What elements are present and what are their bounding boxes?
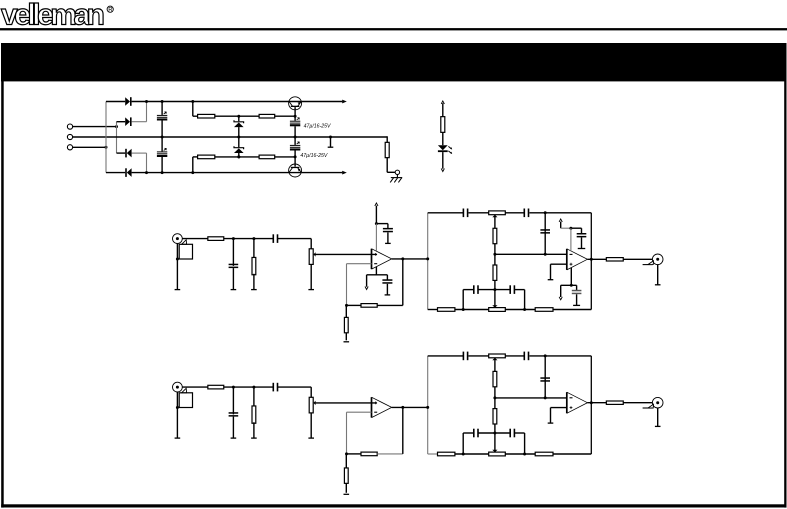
- op-amp U1a: [371, 249, 373, 269]
- wire center rail to R5: [386, 136, 388, 142]
- op-amp U2b: [566, 392, 568, 413]
- ground volume pot ch2: [308, 437, 314, 439]
- wire decoupling branch - U2a: [576, 285, 578, 290]
- pot lower wiper arrow ch1: [492, 305, 497, 308]
- wire R4 to Q2 base: [275, 156, 295, 158]
- capacitor tone top-right ch2: [523, 352, 525, 361]
- wire inverting input ch2: [347, 411, 372, 413]
- ground shunt cap ch2: [231, 437, 237, 439]
- resistor output ch1: [606, 258, 623, 261]
- wire fb node to resistor ch1: [347, 304, 362, 306]
- resistor bottom-right ch2: [535, 452, 553, 456]
- node C1 top: [161, 100, 164, 103]
- wire op-amp output ch1: [392, 258, 428, 260]
- wire R5 to chassis: [386, 158, 388, 173]
- resistor feedback ch2: [361, 452, 377, 456]
- wire input line ch1: [224, 238, 273, 240]
- wire AC2 center rail: [73, 136, 388, 138]
- potentiometer volume ch2: [309, 397, 313, 413]
- tone block left edge ch2: [427, 356, 429, 454]
- wire fb node to resistor ch2: [347, 453, 362, 455]
- node C2 bottom: [161, 171, 164, 174]
- wire LED supply: [442, 103, 444, 117]
- wire feedback drop ch1: [346, 264, 348, 306]
- wire -V arrow drop U2a: [560, 285, 562, 297]
- wire -raw rail: [132, 172, 302, 174]
- zener diode ZD2: [238, 137, 240, 147]
- wire input line ch2: [224, 386, 273, 388]
- wire jack to R ch1: [182, 238, 208, 240]
- wire wiper drop upper ch2: [494, 360, 496, 371]
- resistor R6: [441, 117, 445, 133]
- wire +V stem U2a: [560, 222, 562, 229]
- wire +V into op-amp U2a: [570, 228, 572, 251]
- wire decoupling branch U2a: [571, 227, 582, 229]
- wire pot ground ch1: [310, 264, 312, 289]
- wire jack ground ch2: [176, 392, 178, 438]
- node block output ch2: [590, 401, 593, 404]
- arrow -V op-amp U2a: [559, 297, 562, 300]
- svg-text:47µ/16-25V: 47µ/16-25V: [304, 123, 331, 129]
- wire block top line ch1: [428, 212, 464, 214]
- resistor R4: [259, 155, 275, 159]
- node input b ch1: [252, 237, 255, 240]
- wire fb to gain resistor ch2: [345, 454, 347, 493]
- node D3-D4 anodes: [145, 171, 148, 174]
- op-amp U2a: [566, 249, 568, 270]
- node AC3: [105, 146, 108, 149]
- wire R3 rise: [192, 157, 194, 173]
- wire -V arrow drop U1a: [366, 275, 368, 287]
- pot wiper arrow ch2: [313, 401, 315, 405]
- title bar: [1, 43, 785, 81]
- chassis ground: [396, 175, 398, 178]
- arrow +V: [342, 100, 347, 104]
- node input b ch2: [252, 386, 255, 389]
- jack J5 body: [179, 393, 192, 408]
- node D1-D2 cathodes: [145, 100, 148, 103]
- potentiometer tone upper ch2: [489, 354, 506, 358]
- node top line ch2: [544, 354, 547, 357]
- ground decoupling + U1a: [385, 242, 391, 244]
- wire AC1: [73, 126, 117, 128]
- diode D2: [117, 121, 126, 123]
- wire -V tee U1a: [367, 274, 388, 276]
- capacitor tone top-left ch1: [462, 209, 464, 218]
- wire R1 drop: [192, 102, 194, 117]
- pot lower wiper arrow ch2: [492, 450, 497, 453]
- wire decoupling ground - U2a: [576, 294, 578, 305]
- wire -V output: [302, 172, 343, 174]
- capacitor sub-loop right ch1: [509, 285, 511, 294]
- wire decoupling ground U1a: [387, 232, 389, 243]
- wire AC1 riser: [116, 122, 118, 153]
- node wiper net ch2: [493, 396, 496, 399]
- wire D3 anode to -rail: [132, 152, 147, 154]
- svg-text:R: R: [108, 7, 113, 13]
- resistor wiper upper ch1: [493, 228, 497, 243]
- wire output jack ground ch1: [657, 265, 659, 285]
- wire wiper drop upper ch1: [494, 217, 496, 228]
- wire to output jack ch1: [623, 258, 652, 260]
- jack J4 shield triangle: [182, 240, 187, 245]
- pot upper wiper arrow ch2: [492, 358, 497, 361]
- wire feedback to output ch1: [377, 304, 403, 306]
- node AC1: [115, 125, 118, 128]
- wire R3-R4: [215, 156, 259, 158]
- resistor R1: [198, 114, 215, 118]
- diode D4: [106, 172, 125, 174]
- wire wiper mid ch2: [494, 387, 496, 398]
- capacitor input shunt ch1: [232, 239, 234, 266]
- capacitor coupling ch2: [272, 383, 274, 392]
- wire LED to -V: [442, 152, 444, 169]
- capacitor sub-loop left ch2: [473, 429, 475, 438]
- wire sub-loop left leg ch2: [462, 433, 464, 454]
- ground gain resistor ch1: [344, 341, 350, 343]
- wire lower wiper drop ch1: [494, 290, 496, 306]
- ground volume pot ch1: [308, 289, 314, 291]
- LED LD1: [438, 145, 448, 150]
- capacitor mid ch2: [544, 356, 546, 380]
- ground decoupling + U2a: [578, 248, 586, 250]
- ground jack ch1: [175, 289, 181, 291]
- output jack sleeve line ch1: [643, 264, 653, 266]
- wire +V stem U1a: [375, 206, 377, 224]
- wire left rail: [105, 102, 107, 173]
- node bottom-left ch2: [462, 453, 465, 456]
- wire -V tee U2a: [561, 284, 577, 286]
- wire Q2 base lead: [294, 157, 296, 167]
- wire R1-R2: [215, 115, 259, 117]
- ground decoupling - U1a: [385, 294, 391, 296]
- tone block right edge ch2: [590, 356, 592, 454]
- ground gain resistor ch2: [344, 493, 350, 495]
- output jack sleeve line ch2: [643, 407, 653, 409]
- node bottom-right ch2: [523, 453, 526, 456]
- wire decoupling ground - U1a: [386, 284, 388, 295]
- header rule: [0, 28, 787, 30]
- wire feedback to output ch2: [377, 453, 403, 455]
- capacitor decoupling + U2a: [577, 233, 587, 235]
- output jack ch2: [652, 397, 663, 408]
- node feedback ch2: [345, 452, 348, 455]
- node +V U2a: [569, 227, 572, 230]
- ground op-amp + ch2: [548, 422, 554, 424]
- node bottom-right ch1: [523, 308, 526, 311]
- wire inverting input ch1: [347, 263, 372, 265]
- wire R2 to Q1 base: [275, 115, 295, 117]
- node +V U1a: [375, 222, 378, 225]
- wire +raw rail: [132, 101, 302, 103]
- node input a ch2: [232, 386, 235, 389]
- node feedback ch1: [345, 304, 348, 307]
- registered trademark symbol: [107, 6, 113, 12]
- wire lower wiper drop ch2: [494, 433, 496, 450]
- node center rail ZD: [237, 136, 240, 139]
- node block output ch1: [590, 258, 593, 261]
- node -V U2a: [570, 284, 573, 287]
- op-amp U1b: [371, 397, 373, 417]
- capacitor sub-loop left ch1: [473, 285, 475, 294]
- zener diode ZD1: [238, 116, 240, 121]
- wire decoupling ground U2a: [581, 238, 583, 249]
- node input a ch1: [232, 237, 235, 240]
- terminal J3 (AC input 2): [67, 145, 72, 150]
- node sub-loop center ch1: [493, 288, 496, 291]
- resistor input shunt ch1: [253, 239, 255, 259]
- ground shunt cap ch1: [231, 289, 237, 291]
- node C1 bottom: [161, 136, 164, 139]
- ground op-amp + ch1: [548, 279, 554, 281]
- wire sub-loop right leg ch2: [524, 433, 526, 454]
- arrow +V op-amp U2a: [559, 219, 562, 222]
- resistor bottom-left ch1: [438, 308, 455, 312]
- node op-amp output ch2: [401, 406, 404, 409]
- wire output jack ground ch2: [657, 408, 659, 426]
- arrow -V: [342, 171, 347, 175]
- diode D3: [117, 152, 126, 154]
- capacitor decoupling + U1a: [383, 228, 393, 230]
- tone block left edge ch1: [427, 213, 429, 310]
- wire wiper to op-amp ch2: [315, 402, 377, 404]
- wire ground stub: [330, 137, 332, 147]
- wire network line ch1: [495, 253, 567, 255]
- input jack J5 (channel 2): [173, 382, 183, 392]
- capacitor decoupling - U1a: [382, 279, 392, 281]
- node ZD1: [237, 115, 240, 118]
- diode D1: [106, 101, 125, 103]
- wire decoupling branch - U1a: [386, 275, 388, 280]
- potentiometer tone lower ch2: [489, 452, 506, 456]
- resistor wiper lower ch2: [494, 398, 496, 409]
- wire op-amp output ch2: [392, 406, 428, 408]
- wire sub-loop right leg ch1: [524, 290, 526, 310]
- node jack ground ch1: [176, 258, 179, 261]
- wire to volume pot ch1: [278, 238, 312, 240]
- node R3-R4: [237, 155, 240, 158]
- capacitor decoupling - U2a: [572, 290, 582, 292]
- pot wiper arrow ch1: [313, 252, 315, 256]
- transistor Q1: [289, 97, 302, 110]
- resistor output ch2: [606, 401, 623, 404]
- node R1 tap: [191, 100, 194, 103]
- wire to output jack ch2: [623, 402, 652, 404]
- resistor input shunt ch2: [253, 387, 255, 407]
- wire + input ground ch1: [551, 263, 567, 265]
- wire -V stem U1a: [375, 267, 377, 275]
- node C3 bottom: [294, 136, 297, 139]
- node network mid ch2: [544, 396, 547, 399]
- capacitor tone top-left ch2: [462, 352, 464, 361]
- resistor R3: [198, 155, 215, 159]
- wire D2 cathode to +rail: [132, 121, 147, 123]
- wire Q1 base lead: [294, 107, 296, 116]
- wire pot ground ch2: [310, 413, 312, 438]
- ground shunt resistor ch1: [251, 289, 257, 291]
- output jack sleeve triangle ch2: [648, 404, 654, 408]
- wire op-amp2 output ch2: [587, 402, 606, 404]
- wire block bottom line ch1: [428, 309, 438, 311]
- resistor wiper upper ch2: [493, 371, 497, 386]
- ground shunt resistor ch2: [251, 437, 257, 439]
- svg-text:velleman: velleman: [1, 0, 105, 32]
- resistor gain set ch1: [344, 317, 348, 332]
- wire jack to R ch2: [182, 386, 208, 388]
- node block input ch1: [426, 257, 429, 260]
- arrow +V LED supply: [441, 101, 444, 104]
- arrow +V op-amp U1a: [375, 203, 378, 206]
- capacitor sub-loop right ch2: [509, 429, 511, 438]
- input jack J4 (channel 1): [173, 234, 183, 244]
- ground jack ch2: [175, 437, 181, 439]
- page border bottom: [1, 504, 786, 507]
- wire fb to gain resistor ch1: [345, 305, 347, 340]
- capacitor C4 47u: [294, 137, 296, 145]
- wire wiper mid ch1: [494, 244, 496, 255]
- resistor input series ch1: [208, 237, 224, 241]
- tone block right edge ch1: [590, 213, 592, 310]
- terminal J1 (AC input 1): [67, 124, 72, 129]
- capacitor coupling ch1: [272, 234, 274, 243]
- wire block bottom line ch2: [428, 453, 438, 455]
- terminal J2 (AC input center): [67, 134, 72, 139]
- jack J4 body: [179, 244, 192, 259]
- potentiometer tone upper ch1: [489, 211, 506, 215]
- capacitor C2 (reservoir -): [161, 137, 163, 151]
- resistor input series ch2: [208, 385, 224, 389]
- resistor feedback ch1: [361, 304, 377, 308]
- node sub-loop center ch2: [493, 432, 496, 435]
- wire network line ch2: [495, 397, 567, 399]
- capacitor tone top-right ch1: [523, 209, 525, 218]
- ground decoupling - U2a: [573, 304, 580, 306]
- node block input ch2: [426, 406, 429, 409]
- wire -V stem U2a: [570, 268, 572, 286]
- node R3 tap: [191, 171, 194, 174]
- node jack ground ch2: [176, 406, 179, 409]
- wire jack ground ch1: [176, 244, 178, 290]
- node top line ch1: [544, 211, 547, 214]
- node wiper net ch1: [493, 253, 496, 256]
- capacitor C1 (reservoir +): [161, 102, 163, 115]
- page border right: [784, 43, 786, 508]
- node bottom-left ch1: [462, 308, 465, 311]
- resistor bottom-left ch2: [438, 452, 455, 456]
- wire feedback drop ch2: [346, 412, 348, 454]
- wire + input ground ch2: [551, 407, 567, 409]
- capacitor C3 47u: [294, 116, 296, 121]
- capacitor input shunt ch2: [232, 387, 234, 414]
- wire to volume pot ch2: [278, 386, 312, 388]
- wire op-amp2 output ch1: [587, 258, 606, 260]
- ground output jack ch2: [655, 425, 661, 427]
- arrow -V LED return: [441, 169, 444, 172]
- resistor wiper lower ch1: [494, 254, 496, 265]
- page border left: [1, 43, 4, 508]
- wire sub-loop ch1: [463, 289, 473, 291]
- node ZD2 anode: [237, 155, 240, 158]
- potentiometer tone lower ch1: [489, 308, 506, 312]
- wire block top line ch2: [428, 355, 464, 357]
- ground output jack ch1: [655, 284, 661, 286]
- node Q1 base: [294, 115, 297, 118]
- resistor bottom-right ch1: [535, 308, 553, 312]
- wire wiper to op-amp ch1: [315, 253, 377, 255]
- wire +V output: [302, 101, 343, 103]
- arrow -V op-amp U1a: [365, 287, 368, 290]
- node op-amp output ch1: [401, 257, 404, 260]
- capacitor mid ch1: [544, 213, 546, 232]
- node ground reference: [329, 136, 332, 139]
- wire decoupling branch U1a: [376, 223, 388, 225]
- resistor gain set ch2: [344, 468, 348, 483]
- wire AC3: [73, 146, 106, 148]
- wire R6 to LED: [442, 132, 444, 145]
- ground: [328, 146, 334, 148]
- resistor R5: [385, 142, 389, 157]
- wire +V into op-amp U1a: [375, 224, 377, 251]
- terminal chassis: [395, 170, 399, 174]
- pot upper wiper arrow ch1: [492, 215, 497, 218]
- jack J5 shield triangle: [182, 388, 187, 393]
- wire sub-loop left leg ch1: [462, 290, 464, 310]
- node Q2 base: [294, 155, 297, 158]
- potentiometer volume ch1: [309, 249, 313, 265]
- svg-text:47µ/16-25V: 47µ/16-25V: [300, 153, 327, 159]
- node network mid ch1: [544, 253, 547, 256]
- wire sub-loop ch2: [463, 432, 473, 434]
- output jack sleeve triangle ch1: [648, 261, 654, 265]
- output jack ch1: [652, 254, 663, 265]
- transistor Q2: [289, 164, 302, 177]
- resistor R2: [259, 114, 275, 118]
